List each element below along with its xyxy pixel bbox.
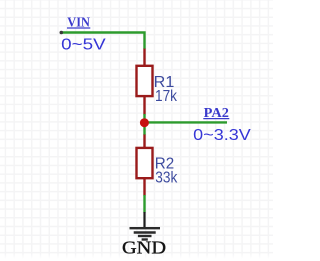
wire end dot at VIN: [60, 31, 64, 35]
wire junction to PA2: [145, 121, 228, 123]
resistor R2: [137, 135, 153, 196]
wire: VIN net (horizontal then down to R1): [61, 33, 144, 50]
svg-text:33k: 33k: [155, 170, 178, 187]
svg-text:0~5V: 0~5V: [61, 37, 106, 54]
svg-text:0~3.3V: 0~3.3V: [193, 127, 251, 144]
resistor R1: [137, 49, 153, 115]
junction node: [140, 118, 149, 127]
wire R2 to ground: [143, 195, 145, 213]
svg-text:17k: 17k: [155, 88, 178, 105]
net label VIN: [67, 16, 90, 31]
ground: [130, 212, 161, 240]
net label PA2: [203, 106, 229, 121]
wire R1 to junction: [143, 114, 145, 135]
